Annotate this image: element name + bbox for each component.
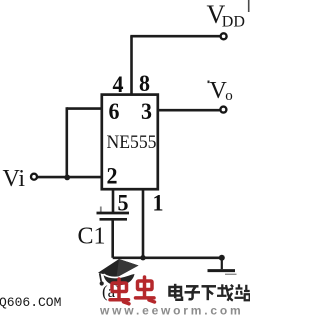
watermark char zhan 站 [235, 284, 250, 300]
wire bottom horizontal [113, 256, 222, 259]
svg-text:o: o [225, 88, 233, 104]
capacitor C1 top plate [97, 212, 130, 215]
terminal Vi [31, 174, 37, 180]
watermark cap white crescent [104, 273, 134, 278]
wire Vi to pin2 [37, 176, 101, 179]
wire pin1 vertical [142, 191, 145, 258]
svg-text:www.eeworm.com: www.eeworm.com [99, 304, 243, 316]
svg-text:NE555: NE555 [107, 132, 157, 153]
junction dot pin1/bottom wire [140, 255, 145, 260]
watermark char dian 电 [170, 284, 183, 300]
svg-text:8: 8 [139, 71, 150, 96]
svg-text:Vi: Vi [3, 166, 26, 192]
watermark char zai 载 [217, 284, 233, 300]
wire C1 bottom lead [111, 221, 114, 258]
svg-text:3: 3 [141, 99, 152, 124]
svg-text:C1: C1 [78, 224, 106, 250]
svg-text:6: 6 [109, 99, 120, 124]
watermark graduation cap board [98, 259, 139, 278]
svg-text:5: 5 [118, 191, 129, 216]
junction dot node A [64, 175, 70, 181]
wire pin5 to C1 [112, 190, 115, 213]
svg-text:2: 2 [107, 164, 118, 189]
watermark chong char 1 (red) [110, 279, 129, 304]
watermark char zi 子 [185, 286, 201, 299]
label Vo [208, 81, 210, 84]
ground shadow mark [225, 273, 237, 275]
scan smudge above C1 left plate end [100, 207, 102, 214]
svg-text:Q606.COM: Q606.COM [0, 295, 61, 310]
capacitor C1 bottom plate [100, 218, 128, 221]
op-amp U1 NE555 body [102, 95, 158, 190]
terminal Vo [220, 107, 226, 113]
wire pin6 loop vertical [66, 107, 69, 177]
scan tick top right corner [248, 0, 250, 12]
wire pin3 to Vo [158, 109, 220, 112]
wire pin6 loop horizontal [67, 107, 101, 110]
watermark cap dome [103, 272, 134, 286]
svg-text:1: 1 [153, 191, 164, 216]
watermark char xia 下 [202, 286, 217, 300]
wire pin8 top to corner [130, 36, 133, 94]
svg-text:DD: DD [222, 13, 245, 30]
wire top horizontal to VDD [130, 35, 220, 38]
junction dot ground corner [219, 255, 225, 261]
watermark chong char 2 (red) [136, 277, 155, 302]
terminal VDD [221, 33, 227, 39]
watermark cap tassel [100, 273, 102, 281]
ground bar [208, 269, 236, 272]
ground stub [221, 258, 223, 269]
svg-text:4: 4 [113, 72, 124, 97]
